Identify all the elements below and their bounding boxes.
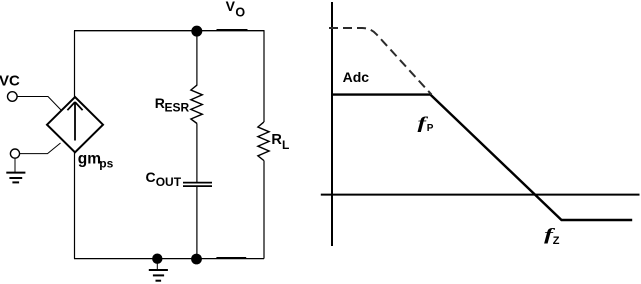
label fP bbox=[418, 113, 434, 134]
resistor R_ESR bbox=[191, 85, 202, 123]
capacitor C_OUT bbox=[183, 183, 212, 187]
svg-text:Z: Z bbox=[553, 235, 560, 247]
svg-text:R: R bbox=[155, 95, 165, 111]
terminal lower input bbox=[10, 149, 19, 158]
label fZ bbox=[544, 225, 560, 247]
wire left branch lower bbox=[74, 152, 76, 259]
current source gm_ps bbox=[47, 97, 103, 152]
svg-text:gm: gm bbox=[78, 151, 101, 168]
svg-text:ps: ps bbox=[99, 156, 113, 170]
label VO bbox=[226, 0, 246, 19]
ground output bbox=[149, 259, 168, 281]
wire lower terminal to source bbox=[20, 143, 61, 154]
label C_OUT bbox=[146, 169, 182, 189]
bode gain curve solid bbox=[331, 95, 632, 220]
label R_L bbox=[271, 132, 289, 152]
wire left branch upper bbox=[74, 31, 76, 98]
node VO dot bbox=[191, 26, 202, 37]
wire middle branch lower bbox=[196, 187, 198, 259]
wire right branch lower bbox=[263, 161, 265, 259]
wire middle branch upper bbox=[196, 31, 198, 86]
svg-text:R: R bbox=[271, 132, 282, 148]
svg-text:VC: VC bbox=[0, 72, 20, 89]
ground input bbox=[6, 158, 25, 182]
svg-text:C: C bbox=[146, 169, 156, 185]
bode horizontal axis bbox=[321, 194, 640, 196]
junction dot COUT bbox=[191, 254, 202, 265]
wire VC to source bbox=[17, 97, 62, 111]
wire middle branch mid bbox=[196, 124, 198, 183]
svg-text:P: P bbox=[427, 123, 434, 134]
svg-text:Adc: Adc bbox=[343, 69, 370, 85]
svg-text:OUT: OUT bbox=[156, 175, 182, 189]
svg-text:ESR: ESR bbox=[165, 101, 190, 115]
junction dot ground bbox=[152, 254, 162, 264]
wire top rail bbox=[74, 30, 265, 32]
label gm_ps bbox=[78, 151, 114, 171]
wire top rail thick segment bbox=[217, 29, 248, 31]
wire right branch upper bbox=[263, 31, 265, 122]
resistor R_L bbox=[258, 122, 269, 160]
wire bottom rail thick segment bbox=[216, 257, 246, 259]
bode vertical axis bbox=[331, 2, 333, 246]
bode dashed curve bbox=[329, 28, 432, 95]
label R_ESR bbox=[155, 95, 190, 115]
wire bottom rail bbox=[74, 258, 264, 260]
svg-text:O: O bbox=[235, 5, 245, 19]
svg-text:V: V bbox=[226, 0, 236, 14]
terminal VC bbox=[8, 92, 18, 102]
svg-text:L: L bbox=[282, 138, 289, 152]
